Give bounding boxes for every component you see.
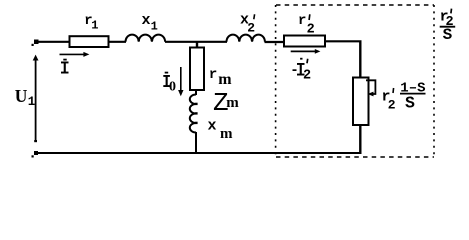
- label rm: [209, 67, 232, 88]
- wire: xm to bottom: [195, 132, 197, 153]
- inductor xm (vertical): [190, 95, 198, 133]
- svg-text:x: x: [142, 12, 151, 29]
- wire: r2 to right corner: [325, 40, 362, 42]
- svg-text:2: 2: [247, 21, 255, 36]
- svg-text:x: x: [208, 118, 217, 135]
- dashed box (rotor section): [276, 5, 434, 157]
- label I0 (typewriter I with dot): [163, 72, 176, 95]
- label x2': [240, 12, 255, 36]
- current arrow -I2': [291, 49, 321, 54]
- label r2'(1-S)/S: [382, 80, 426, 112]
- voltage arrow U1: [33, 55, 39, 143]
- terminal top-left: [32, 40, 39, 47]
- wire: R1 to x1: [109, 41, 127, 43]
- svg-text:r: r: [209, 67, 217, 83]
- hook arrow into right resistor: [366, 80, 375, 96]
- bottom wire: [35, 152, 362, 154]
- label -I2' (typewriter I with dot): [293, 58, 312, 84]
- svg-text:m: m: [226, 95, 239, 111]
- junction middle branch: [196, 42, 198, 48]
- svg-text:2: 2: [307, 22, 315, 37]
- current arrow I1: [60, 52, 90, 57]
- terminal bottom-left: [32, 151, 39, 158]
- wire: x1 to junction to x2: [165, 41, 227, 43]
- resistor rm: [190, 48, 204, 91]
- label Zm: [213, 88, 239, 118]
- label r2': [298, 13, 315, 37]
- wire right branch lower: [359, 125, 361, 154]
- svg-text:S: S: [405, 93, 415, 112]
- wire right branch upper: [359, 41, 361, 77]
- svg-text:U: U: [15, 86, 28, 106]
- resistor r2': [284, 36, 325, 47]
- wire: rm to xm: [195, 90, 197, 95]
- svg-text:2: 2: [388, 98, 396, 113]
- svg-text:1: 1: [28, 95, 36, 109]
- label U1: [15, 86, 36, 109]
- current arrow I0: [178, 67, 183, 96]
- label r2'/S (top right): [440, 8, 456, 44]
- svg-text:1: 1: [91, 18, 98, 32]
- inductor x1: [126, 35, 166, 42]
- label xm: [208, 118, 234, 142]
- resistor r2'(1-S)/S: [353, 78, 369, 126]
- svg-text:S: S: [443, 26, 453, 44]
- resistor r1: [70, 36, 109, 47]
- svg-text:r: r: [298, 13, 306, 29]
- svg-text:2: 2: [303, 68, 311, 83]
- label x1: [142, 12, 158, 33]
- label r1: [84, 13, 98, 32]
- wire: x2 to r2: [265, 41, 285, 43]
- inductor x2': [227, 35, 265, 42]
- label I1 (typewriter I with dot): [61, 59, 69, 74]
- svg-text:0: 0: [169, 80, 176, 95]
- svg-text:m: m: [218, 71, 232, 88]
- svg-text:m: m: [220, 126, 233, 142]
- wire top: terminal to R1: [35, 41, 70, 43]
- svg-text:1: 1: [151, 19, 158, 33]
